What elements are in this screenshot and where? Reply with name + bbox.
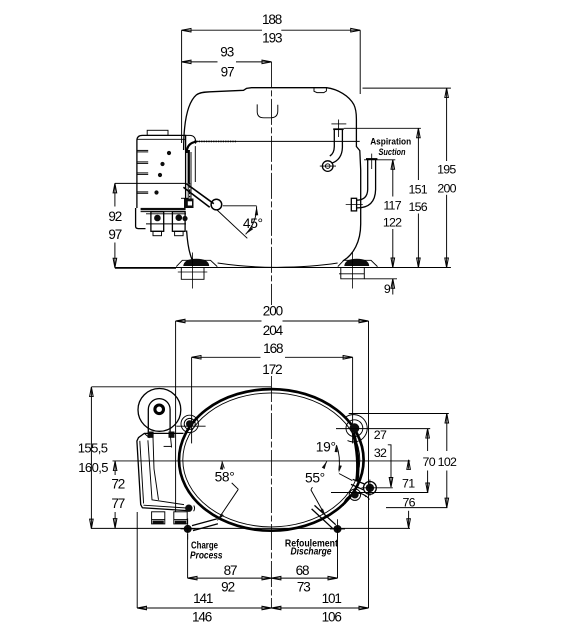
svg-text:168: 168 [263,341,283,356]
relay circle [138,389,181,438]
svg-text:Discharge: Discharge [291,546,332,557]
svg-text:106: 106 [322,610,342,625]
left foot grommet [183,259,209,266]
left foot cross [192,253,194,289]
left foot sleeve [181,268,204,280]
dim 92/97 left [108,183,186,268]
dim 188/193 top width [182,12,361,143]
top-right lug [346,415,368,442]
svg-text:117: 117 [383,199,401,213]
svg-text:188: 188 [262,12,282,27]
svg-text:160,5: 160,5 [78,460,108,475]
dark connector block [184,199,194,209]
shell outline side view [184,88,361,261]
svg-text:27: 27 [374,428,387,442]
dim 117/122 [364,160,402,268]
oil plug handle on top [257,104,278,117]
svg-text:58°: 58° [215,470,235,485]
dim 71 [402,460,415,491]
svg-text:92: 92 [221,580,234,595]
svg-text:195: 195 [437,163,456,177]
dim 45 deg [217,206,263,239]
right foot plate [338,260,378,266]
svg-text:70: 70 [423,455,436,469]
top-left lug [176,415,205,432]
dim 76 [402,496,415,529]
svg-text:45°: 45° [243,216,263,231]
svg-text:122: 122 [383,215,402,229]
svg-text:200: 200 [263,304,283,319]
centerline vertical bottom view [270,376,272,608]
right side reference lines [349,413,449,415]
svg-text:76: 76 [402,496,415,510]
centerline side view [271,62,273,305]
dim 58 deg [215,461,239,520]
svg-text:87: 87 [224,563,237,578]
right foot cross [352,253,354,289]
right foot grommet [344,259,369,266]
svg-text:151: 151 [408,182,427,196]
svg-text:97: 97 [108,227,121,242]
dim 72/77 [111,461,124,528]
svg-text:93: 93 [220,44,233,59]
dim 70 [423,429,436,493]
svg-text:Process: Process [190,550,223,561]
terminal cups top view [152,512,188,524]
weld seam line [196,140,360,142]
svg-text:156: 156 [408,200,427,214]
centerline horizontal bottom view [113,460,411,462]
dim 19 deg [316,440,353,481]
svg-text:97: 97 [221,64,234,79]
svg-text:19°: 19° [316,440,336,455]
terminal block [136,208,186,236]
svg-text:102: 102 [438,455,457,469]
upper tube (discharge) side view [320,120,347,172]
svg-text:32: 32 [374,446,387,460]
dim 55 deg [305,461,327,516]
dim 102 [438,414,457,508]
svg-text:77: 77 [111,496,124,511]
shell skirt between feet [218,263,338,267]
left foot plate [176,260,217,266]
dim 151/156 [344,128,428,267]
svg-text:92: 92 [108,209,121,224]
dim 141/146 and 101/106 [137,512,368,625]
bottom-right lug [343,489,369,506]
svg-text:146: 146 [192,610,212,625]
svg-text:Aspiration: Aspiration [370,136,411,146]
shell lower-left edge [187,231,193,260]
dim 200/204 [176,304,369,608]
dim 155,5/160,5 [78,387,272,529]
svg-text:73: 73 [297,580,310,595]
svg-text:72: 72 [111,476,124,491]
dim 32 [374,445,391,487]
svg-text:71: 71 [402,476,415,490]
bottom-left lug (hidden) [185,505,194,512]
suction tube side view [346,154,378,211]
svg-text:141: 141 [193,591,213,606]
svg-text:101: 101 [322,591,342,606]
process tube 45deg side view [183,184,221,210]
discharge connector top view [312,505,345,538]
svg-text:204: 204 [263,323,284,338]
svg-text:9: 9 [384,282,391,296]
svg-text:172: 172 [262,362,282,377]
dim 195/200 right [437,88,457,267]
shell ellipse [179,389,364,531]
right foot sleeve [341,268,365,279]
base line [115,267,451,269]
svg-text:193: 193 [262,31,282,46]
svg-text:68: 68 [296,563,309,578]
vent slots [137,150,148,193]
terminal box side view [137,130,197,208]
process connector top view [181,519,218,540]
svg-text:55°: 55° [305,470,325,485]
suction connector top view [351,433,376,496]
box rivet dots [167,151,171,155]
svg-text:Suction: Suction [379,147,406,157]
dim 93/97 [182,44,272,79]
top right ref line [363,87,451,89]
connector level ref line [91,527,410,529]
dim 168/172 [192,341,353,443]
box top view [137,433,187,510]
svg-text:200: 200 [437,182,456,196]
dim 87/92 and 68/73 [188,534,338,595]
dim 9 [365,279,398,296]
svg-text:155,5: 155,5 [78,440,108,455]
